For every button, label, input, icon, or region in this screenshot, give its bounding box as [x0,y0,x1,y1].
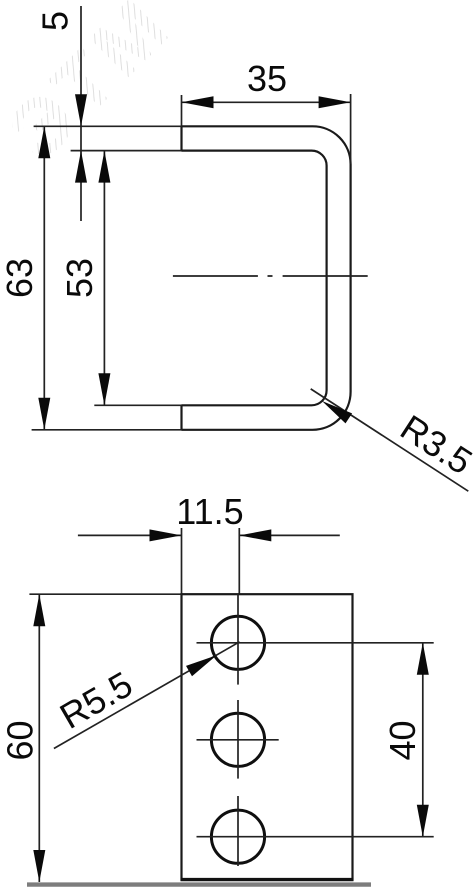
dim 11.5 right tail [239,534,339,536]
dim 53 arrow down [98,373,110,405]
dim 5 line vertical [80,6,82,221]
dim 11.5 extension left [181,528,183,594]
radius leader R3.5 line [311,389,469,491]
svg-text:35: 35 [247,58,287,99]
radius leader R5.5 arrow [186,655,217,676]
dim 53 text [59,258,100,298]
center line dash-dot of channel [173,275,368,277]
extension line inner-bottom extended left [94,404,181,406]
dim 40 text [382,720,423,760]
channel inner profile (top view) [182,151,327,406]
dim 40 arrow down [417,805,429,837]
dim 63 arrow up [38,126,50,158]
dim 40 line [422,643,424,837]
hole 3 center mark vertical [237,796,239,866]
svg-text:53: 53 [59,258,100,298]
dim 5 arrow down [75,94,87,126]
hole 2 center mark horizontal [197,739,279,741]
hole 1 center mark vertical [237,594,239,684]
radius leader R3.5 arrow [322,401,352,423]
dim 35 arrow left [182,96,214,108]
hole 3 bottom [211,810,264,863]
svg-text:5: 5 [35,11,76,31]
dim 11.5 left tail [78,534,182,536]
dim 40 arrow up [417,643,429,675]
dim 63 arrow down [38,398,50,430]
dim 63 line [43,126,45,430]
radius R3.5 text [393,407,474,483]
hole 1 top [211,616,264,669]
radius R5.5 text [53,663,139,737]
svg-text:40: 40 [382,720,423,760]
svg-text:11.5: 11.5 [176,491,243,532]
watermark logo ETM hatched, rotated 45deg, top-left [0,0,188,176]
plate outline (bottom view) [182,594,353,880]
dim 63 text [0,258,40,298]
dim 11.5 arrow right-pointing [150,529,182,541]
svg-text:60: 60 [0,720,41,760]
dim 53 arrow up [98,151,110,183]
channel outer profile (top view) [182,126,351,430]
svg-text:63: 63 [0,258,40,298]
radius leader R5.5 line [54,642,240,749]
hole 3 center mark horizontal + dim 40 bottom extension [197,836,434,838]
plate bottom edge thick [181,878,354,881]
dim 11.5 arrow left-pointing [239,529,271,541]
extension line outer-top extended left [34,125,182,127]
extension line inner-top extended left [71,150,182,152]
channel left end cap bottom flange [180,405,182,430]
dim 60 arrow down [33,850,45,882]
dim 5 text [35,11,76,31]
dim 60 extension bottom gray bar [27,882,371,886]
dim 53 line [103,151,105,406]
channel left end cap top flange [180,126,182,150]
dim 60 arrow up [33,594,45,626]
dim 60 line [38,594,40,882]
dim 35 extension left [181,95,183,126]
hole 2 center mark vertical [237,700,239,779]
dim 5 arrow up [75,151,87,183]
extension line outer-bottom extended left [32,429,182,431]
hole 2 middle [211,713,264,766]
dim 60 extension top [29,593,181,595]
dim 35 arrow right [319,96,351,108]
dim 60 text [0,720,41,760]
dim 35 line [182,101,351,103]
dim 11.5 extension right / hole axis [238,528,240,594]
dim 35 extension right [350,94,352,164]
hole 1 center mark horizontal + dim 40 top extension [197,642,434,644]
